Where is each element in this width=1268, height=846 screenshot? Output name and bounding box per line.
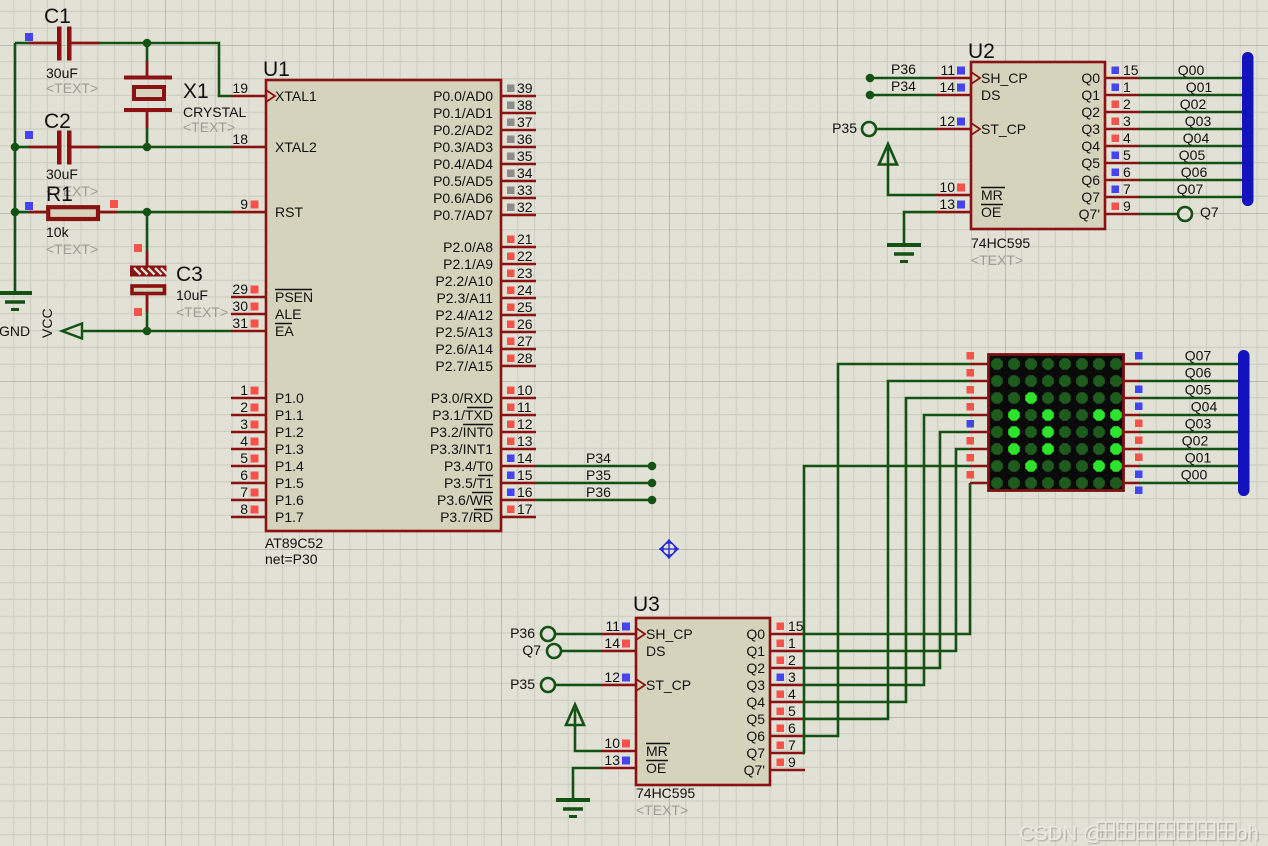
svg-text:ST_CP: ST_CP (981, 121, 1026, 137)
svg-text:Q4: Q4 (1081, 138, 1100, 154)
svg-text:Q05: Q05 (1185, 382, 1212, 398)
pin 2 Q2 of U2 (1081, 96, 1140, 120)
wire U3 Q0 to matrix row (805, 483, 970, 634)
svg-text:25: 25 (517, 299, 533, 315)
terminal Q7 at U3 (547, 644, 561, 658)
pin 13 OE of U2 (936, 196, 1003, 220)
svg-text:oh: oh (1236, 822, 1259, 845)
capacitor C1 (29, 5, 101, 96)
svg-text:P3.4/T0: P3.4/T0 (444, 458, 493, 474)
pin 2 Q2 of U3 (746, 652, 805, 676)
pin 35 P0.4/AD4 of U1 (433, 148, 536, 172)
svg-text:P3.1/TXD: P3.1/TXD (432, 407, 493, 423)
state square left matrix row 4 (967, 403, 975, 411)
wire U2 Q5 to bus (1139, 162, 1246, 165)
shift register U3 74HC595 body (636, 618, 770, 785)
svg-text:VCC: VCC (39, 308, 55, 338)
pin row 2 right of matrix (1123, 380, 1140, 383)
pin 33 P0.6/AD6 of U1 (433, 182, 536, 206)
svg-text:39: 39 (517, 80, 533, 96)
svg-text:P35: P35 (832, 120, 857, 136)
wire U3 Q7 to matrix row (804, 466, 970, 753)
pin 34 P0.5/AD5 of U1 (433, 165, 536, 189)
pin 10 MR of U3 (601, 735, 670, 759)
svg-text:3: 3 (1123, 113, 1131, 129)
terminal P35 at U3 (541, 678, 555, 692)
svg-text:P0.4/AD4: P0.4/AD4 (433, 156, 493, 172)
node junction R1/C3 (143, 208, 152, 217)
pin 4 Q4 of U2 (1081, 130, 1140, 154)
svg-text:18: 18 (232, 131, 248, 147)
pin 2 P1.1 of U1 (231, 399, 304, 423)
svg-text:26: 26 (517, 316, 533, 332)
wire C1 left (15, 42, 29, 45)
pin 12 P3.2/INT0 of U1 (430, 416, 536, 440)
node P34 end (866, 91, 875, 100)
svg-text:2: 2 (788, 652, 796, 668)
pin 32 P0.7/AD7 of U1 (433, 199, 536, 223)
capacitor C3 (polarized) (130, 263, 228, 320)
blue state square at C2 (25, 131, 33, 139)
svg-text:31: 31 (232, 315, 248, 331)
svg-text:1: 1 (240, 382, 248, 398)
svg-text:1: 1 (1123, 79, 1131, 95)
svg-text:P1.1: P1.1 (275, 407, 304, 423)
svg-text:10: 10 (604, 735, 620, 751)
pin row 8 left of matrix (970, 482, 989, 485)
state square left matrix row 5 (967, 420, 975, 428)
terminal P35 at U2 (862, 122, 876, 136)
pin row 3 left of matrix (970, 397, 989, 400)
svg-text:PSEN: PSEN (275, 289, 313, 305)
wire matrix row 4 to bus (1140, 414, 1246, 417)
svg-text:15: 15 (788, 618, 804, 634)
node junction C2/X1 (143, 143, 152, 152)
pin 9 Q7' of U3 (744, 754, 805, 778)
pin 14 P3.4/T0 of U1 (444, 450, 536, 474)
svg-text:P2.3/A11: P2.3/A11 (436, 290, 493, 306)
svg-text:C3: C3 (176, 263, 203, 286)
svg-text:7: 7 (788, 737, 796, 753)
svg-text:P0.7/AD7: P0.7/AD7 (433, 207, 493, 223)
svg-text:CSDN @: CSDN @ (1019, 822, 1104, 845)
svg-text:11: 11 (605, 618, 620, 634)
red state square below C3 (134, 308, 142, 316)
state square right matrix row 2 (1135, 386, 1143, 394)
svg-text:P0.5/AD5: P0.5/AD5 (433, 173, 493, 189)
wire P36 to U2 SH_CP (870, 77, 936, 80)
pin row 5 right of matrix (1123, 431, 1140, 434)
power terminal VCC (left) (39, 308, 82, 338)
pin 38 P0.1/AD1 of U1 (433, 97, 536, 121)
wire Q7 to U3 DS (561, 650, 602, 653)
wire P35 to U3 ST_CP (555, 684, 602, 687)
pin row 6 left of matrix (970, 448, 989, 451)
pin 15 Q0 of U2 (1081, 62, 1140, 86)
pin 10 MR of U2 (936, 179, 1005, 203)
wire U3 Q4 to matrix row (805, 398, 970, 702)
wire matrix row 7 to bus (1140, 465, 1246, 468)
svg-text:9: 9 (240, 196, 248, 212)
svg-text:74HC595: 74HC595 (971, 235, 1030, 251)
terminal Q7 at U2 (1178, 207, 1192, 221)
crystal X1 (124, 61, 246, 136)
svg-text:Q5: Q5 (1081, 155, 1100, 171)
pin 12 ST_CP of U3 (601, 669, 691, 693)
svg-text:Q0: Q0 (746, 626, 765, 642)
svg-text:30uF: 30uF (46, 65, 78, 81)
svg-text:10k: 10k (46, 224, 70, 240)
pin row 2 left of matrix (970, 380, 989, 383)
state square left matrix row 8 (967, 471, 975, 479)
svg-text:X1: X1 (183, 80, 209, 103)
svg-text:9: 9 (788, 754, 796, 770)
svg-text:6: 6 (788, 720, 796, 736)
svg-text:5: 5 (1123, 147, 1131, 163)
capacitor C2 (29, 110, 101, 199)
svg-text:30uF: 30uF (46, 166, 78, 182)
wire X1 top stub (146, 43, 149, 61)
svg-text:P36: P36 (586, 484, 611, 500)
svg-text:P2.7/A15: P2.7/A15 (435, 358, 493, 374)
svg-text:29: 29 (232, 281, 248, 297)
svg-text:P3.7/RD: P3.7/RD (440, 509, 493, 525)
state square right matrix row 3 (1135, 403, 1143, 411)
svg-text:P1.0: P1.0 (275, 390, 304, 406)
svg-text:14: 14 (517, 450, 533, 466)
svg-text:74HC595: 74HC595 (636, 785, 695, 801)
svg-text:14: 14 (604, 635, 620, 651)
svg-text:Q1: Q1 (746, 643, 765, 659)
svg-text:P35: P35 (510, 676, 535, 692)
state square left matrix row 7 (967, 454, 975, 462)
svg-text:1: 1 (788, 635, 796, 651)
svg-text:6: 6 (1123, 164, 1131, 180)
svg-text:Q04: Q04 (1191, 399, 1218, 415)
pin 21 P2.0/A8 of U1 (443, 231, 536, 255)
svg-text:Q01: Q01 (1185, 450, 1212, 466)
wire C3 top stub (146, 212, 149, 250)
svg-text:C1: C1 (44, 5, 71, 28)
svg-text:P1.4: P1.4 (275, 458, 304, 474)
wire U2 Q7 to bus (1139, 196, 1246, 199)
wire matrix row 8 to bus (1140, 482, 1246, 485)
svg-text:Q5: Q5 (746, 711, 765, 727)
node P35 (648, 479, 657, 488)
state square right matrix row 1 (1135, 352, 1143, 360)
pin C3 bottom (146, 295, 149, 312)
svg-text:9: 9 (1123, 198, 1131, 214)
svg-text:P34: P34 (891, 78, 916, 94)
svg-text:Q6: Q6 (746, 728, 765, 744)
pin 3 Q3 of U2 (1081, 113, 1140, 137)
blue state square at C1 (25, 33, 33, 41)
svg-text:4: 4 (240, 433, 248, 449)
svg-text:Q03: Q03 (1185, 416, 1212, 432)
state square left matrix row 2 (967, 369, 975, 377)
pin row 3 right of matrix (1123, 397, 1140, 400)
svg-text:5: 5 (240, 450, 248, 466)
wire VCC to EA (82, 330, 231, 333)
pin 1 Q1 of U3 (746, 635, 805, 659)
pin row 8 right of matrix (1123, 482, 1140, 485)
resistor R1 (29, 183, 117, 257)
origin marker (659, 539, 679, 559)
svg-text:3: 3 (240, 416, 248, 432)
wire R1 left (15, 211, 29, 214)
svg-text:RST: RST (275, 204, 303, 220)
svg-text:P2.4/A12: P2.4/A12 (435, 307, 493, 323)
svg-text:Q3: Q3 (746, 677, 765, 693)
pin 11 SH_CP of U2 (936, 62, 1028, 86)
svg-text:ALE: ALE (275, 306, 301, 322)
pin row 4 right of matrix (1123, 414, 1140, 417)
pin 4 P1.3 of U1 (231, 433, 304, 457)
svg-text:Q7: Q7 (746, 745, 765, 761)
svg-text:Q7': Q7' (744, 762, 765, 778)
svg-text:P3.6/WR: P3.6/WR (437, 492, 493, 508)
pin 9 RST of U1 (231, 196, 303, 220)
svg-text:5: 5 (788, 703, 796, 719)
pin 26 P2.5/A13 of U1 (435, 316, 536, 340)
pin 23 P2.2/A10 of U1 (435, 265, 536, 289)
svg-text:30: 30 (232, 298, 248, 314)
terminal P36 at U3 (541, 627, 555, 641)
wire U3 Q2 to matrix row (805, 432, 970, 668)
led matrix body (989, 355, 1124, 491)
wire U3 Q5 to matrix row (805, 381, 970, 719)
pin row 1 left of matrix (970, 363, 989, 366)
svg-text:P2.6/A14: P2.6/A14 (435, 341, 493, 357)
state square right matrix row 6 (1135, 454, 1143, 462)
svg-text:7: 7 (240, 484, 248, 500)
svg-text:23: 23 (517, 265, 533, 281)
shift register U2 74HC595 body (971, 62, 1105, 229)
wire U2 Q0 to bus (1139, 77, 1246, 80)
svg-text:XTAL2: XTAL2 (275, 139, 317, 155)
bus at U2 outputs (1242, 52, 1254, 206)
svg-text:35: 35 (517, 148, 533, 164)
pin row 4 left of matrix (970, 414, 989, 417)
svg-text:P0.0/AD0: P0.0/AD0 (433, 88, 493, 104)
svg-text:P36: P36 (891, 61, 916, 77)
pin 14 DS of U3 (601, 635, 665, 659)
wire C1 right to crystal column (99, 43, 231, 96)
svg-text:19: 19 (232, 80, 248, 96)
wire C2 right to XTAL2 (99, 146, 231, 149)
op chip U1 AT89C52 body (266, 80, 501, 531)
svg-text:<TEXT>: <TEXT> (636, 802, 688, 818)
wire net P36 from U1 (536, 499, 652, 502)
svg-text:XTAL1: XTAL1 (275, 88, 317, 104)
state square right matrix row 7 (1135, 471, 1143, 479)
svg-text:Q6: Q6 (1081, 172, 1100, 188)
pin 11 P3.1/TXD of U1 (432, 399, 536, 423)
pin 28 P2.7/A15 of U1 (435, 350, 536, 374)
svg-text:Q02: Q02 (1180, 96, 1207, 112)
svg-text:12: 12 (939, 113, 955, 129)
svg-text:R1: R1 (46, 183, 73, 206)
wire left rail vertical (14, 43, 17, 293)
svg-text:Q07: Q07 (1185, 348, 1212, 364)
svg-text:28: 28 (517, 350, 533, 366)
svg-text:14: 14 (939, 79, 955, 95)
red state square right of R1 (110, 200, 118, 208)
state square right matrix row 4 (1135, 420, 1143, 428)
svg-text:11: 11 (517, 399, 532, 415)
svg-text:P36: P36 (510, 625, 535, 641)
svg-text:2: 2 (240, 399, 248, 415)
wire U2 OE to ground (904, 212, 936, 243)
state square right matrix row 8 (1135, 487, 1143, 495)
svg-text:U2: U2 (968, 40, 995, 63)
svg-text:10: 10 (517, 382, 533, 398)
svg-text:P35: P35 (586, 467, 611, 483)
svg-text:Q2: Q2 (1081, 104, 1100, 120)
svg-text:10uF: 10uF (176, 287, 208, 303)
svg-text:22: 22 (517, 248, 533, 264)
svg-text:P1.2: P1.2 (275, 424, 304, 440)
svg-text:Q01: Q01 (1186, 79, 1213, 95)
pin row 7 right of matrix (1123, 465, 1140, 468)
wire C2 left (15, 146, 29, 149)
pin 5 P1.4 of U1 (231, 450, 304, 474)
svg-text:37: 37 (517, 114, 533, 130)
wire U3 OE to ground (573, 768, 601, 798)
node P36 end (866, 74, 875, 83)
pin C3 top (146, 250, 149, 266)
pin 4 Q4 of U3 (746, 686, 805, 710)
svg-text:12: 12 (604, 669, 620, 685)
pin row 6 right of matrix (1123, 448, 1140, 451)
svg-text:P2.0/A8: P2.0/A8 (443, 239, 493, 255)
wire U2 Q1 to bus (1139, 94, 1246, 97)
state square right matrix row 5 (1135, 437, 1143, 445)
pin 7 Q7 of U2 (1081, 181, 1140, 205)
svg-text:12: 12 (517, 416, 533, 432)
svg-text:Q03: Q03 (1185, 113, 1212, 129)
svg-text:Q00: Q00 (1178, 62, 1205, 78)
node junction VCC/C3 (143, 327, 152, 336)
pin 5 Q5 of U2 (1081, 147, 1140, 171)
pin 8 P1.7 of U1 (231, 501, 304, 525)
pin 31 EA of U1 (231, 315, 294, 339)
wire U2 Q7' to terminal (1139, 213, 1179, 216)
svg-text:17: 17 (517, 501, 533, 517)
svg-text:P3.2/INT0: P3.2/INT0 (430, 424, 493, 440)
svg-text:P1.3: P1.3 (275, 441, 304, 457)
node junction rail/R1 (11, 208, 20, 217)
pin 27 P2.6/A14 of U1 (435, 333, 536, 357)
pin 29 PSEN of U1 (231, 281, 313, 305)
svg-text:21: 21 (517, 231, 533, 247)
svg-text:P3.3/INT1: P3.3/INT1 (430, 441, 493, 457)
pin 10 P3.0/RXD of U1 (431, 382, 536, 406)
svg-text:16: 16 (517, 484, 533, 500)
pin 25 P2.4/A12 of U1 (435, 299, 536, 323)
ground at U3 (556, 800, 590, 817)
svg-text:33: 33 (517, 182, 533, 198)
svg-text:ST_CP: ST_CP (646, 677, 691, 693)
ground symbol (left rail) (0, 293, 32, 339)
wire net P35 from U1 (536, 482, 652, 485)
svg-text:U1: U1 (263, 58, 290, 81)
wire matrix row 6 to bus (1140, 448, 1246, 451)
svg-text:Q05: Q05 (1179, 147, 1206, 163)
svg-text:Q7': Q7' (1079, 206, 1100, 222)
wire U3 Q6 to matrix row (805, 364, 970, 736)
svg-text:<TEXT>: <TEXT> (971, 252, 1023, 268)
pin 3 P1.2 of U1 (231, 416, 304, 440)
pin 3 Q3 of U3 (746, 669, 805, 693)
pin 24 P2.3/A11 of U1 (436, 282, 536, 306)
svg-text:EA: EA (275, 323, 294, 339)
svg-text:MR: MR (646, 743, 668, 759)
svg-text:13: 13 (517, 433, 533, 449)
svg-text:<TEXT>: <TEXT> (46, 241, 98, 257)
pin row 5 left of matrix (970, 431, 989, 434)
wire U2 Q4 to bus (1139, 145, 1246, 148)
pin 13 P3.3/INT1 of U1 (430, 433, 536, 457)
svg-text:P0.2/AD2: P0.2/AD2 (433, 122, 493, 138)
svg-text:P1.5: P1.5 (275, 475, 304, 491)
svg-text:8: 8 (240, 501, 248, 517)
pin 30 ALE of U1 (231, 298, 301, 322)
pin 12 ST_CP of U2 (936, 113, 1026, 137)
svg-text:24: 24 (517, 282, 533, 298)
wire VCC to U2 MR (888, 164, 936, 195)
pin 22 P2.1/A9 of U1 (443, 248, 536, 272)
svg-text:<TEXT>: <TEXT> (46, 80, 98, 96)
pin 19 XTAL1 of U1 (231, 80, 317, 104)
svg-text:MR: MR (981, 187, 1003, 203)
svg-text:Q7: Q7 (1200, 204, 1219, 220)
node P34 (648, 462, 657, 471)
pin 13 OE of U3 (601, 752, 668, 776)
svg-text:13: 13 (939, 196, 955, 212)
svg-text:10: 10 (939, 179, 955, 195)
wire U2 Q2 to bus (1139, 111, 1246, 114)
svg-text:P0.1/AD1: P0.1/AD1 (433, 105, 493, 121)
svg-text:Q2: Q2 (746, 660, 765, 676)
svg-text:net=P30: net=P30 (265, 551, 318, 567)
wire U3 Q3 to matrix row (805, 415, 970, 685)
svg-text:2: 2 (1123, 96, 1131, 112)
svg-text:P0.3/AD3: P0.3/AD3 (433, 139, 493, 155)
svg-text:15: 15 (517, 467, 533, 483)
power VCC arrow at U3 (566, 705, 584, 726)
wire R1 right to RST (117, 211, 231, 214)
svg-text:<TEXT>: <TEXT> (176, 304, 228, 320)
svg-text:Q04: Q04 (1183, 130, 1210, 146)
state square left matrix row 3 (967, 386, 975, 394)
svg-text:Q3: Q3 (1081, 121, 1100, 137)
wire matrix row 3 to bus (1140, 397, 1246, 400)
pin 11 SH_CP of U3 (601, 618, 693, 642)
svg-text:27: 27 (517, 333, 533, 349)
svg-text:P34: P34 (586, 450, 611, 466)
node junction C1/X1 (143, 39, 152, 48)
svg-text:<TEXT>: <TEXT> (183, 119, 235, 135)
pin 9 Q7' of U2 (1079, 198, 1140, 222)
wire VCC to U3 MR (575, 724, 601, 751)
svg-text:4: 4 (1123, 130, 1131, 146)
svg-text:Q0: Q0 (1081, 70, 1100, 86)
svg-text:3: 3 (788, 669, 796, 685)
pin 14 DS of U2 (936, 79, 1000, 103)
svg-text:38: 38 (517, 97, 533, 113)
pin 7 Q7 of U3 (746, 737, 805, 761)
